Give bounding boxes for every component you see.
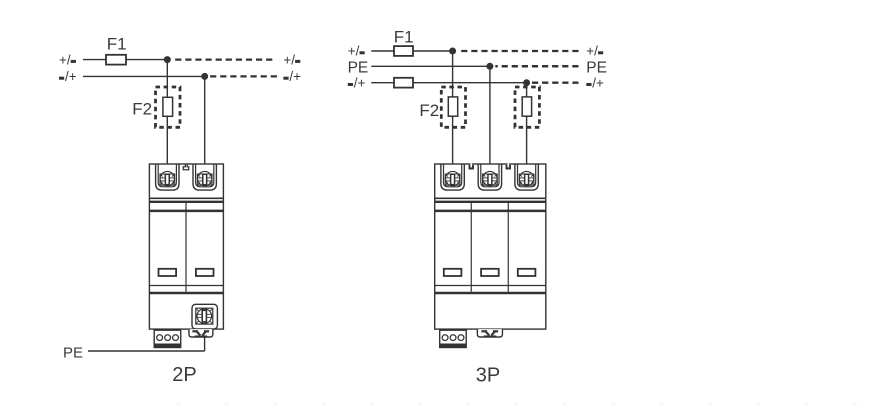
svg-text:F1: F1 [107,35,127,54]
svg-text:F2: F2 [132,99,152,118]
svg-text:PE: PE [63,345,83,362]
svg-text:F2: F2 [419,101,439,120]
svg-text:+/: +/ [59,52,71,67]
svg-text:+/: +/ [586,44,598,59]
svg-text:+/: +/ [283,52,295,67]
svg-text:2P: 2P [172,364,196,386]
svg-text:F1: F1 [394,27,414,46]
svg-text:/+: /+ [354,75,366,90]
svg-text:+/: +/ [348,44,360,59]
svg-text:PE: PE [586,59,607,76]
svg-text:/+: /+ [289,69,301,84]
svg-text:/+: /+ [592,75,604,90]
svg-text:PE: PE [348,59,369,76]
svg-text:/+: /+ [65,69,77,84]
svg-text:3P: 3P [476,365,500,387]
